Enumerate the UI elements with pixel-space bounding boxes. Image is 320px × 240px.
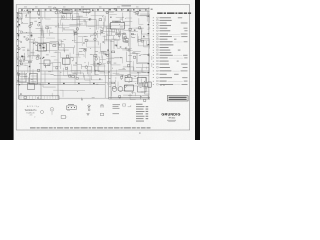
wire [31,42,38,51]
resistor R26 [46,27,49,29]
wire [101,27,111,29]
resistor R31 [63,16,65,18]
transistor T25 [129,9,132,12]
value label [87,39,89,42]
wire [71,15,73,20]
wire [132,28,142,32]
value label [140,86,142,89]
capacitor C9 [99,77,101,79]
wire [126,17,132,19]
transistor T2 [85,66,88,69]
resistor R16 [29,61,32,63]
wire [128,96,141,100]
wire [123,13,132,22]
U2 inner blobs [39,45,41,46]
wire [142,28,148,34]
wire [43,42,57,51]
wire [18,29,21,31]
component blob [42,57,43,60]
left edge component mark B [18,34,20,36]
resistor R20 [74,33,77,35]
wire [93,56,105,66]
wire [113,72,120,74]
wire [27,66,29,73]
wire [118,69,126,71]
wire [36,28,42,35]
wire [45,9,51,19]
wire [74,32,78,34]
component blob [143,36,144,38]
wire [130,79,137,82]
wire [143,83,150,87]
wire [76,54,84,57]
left black binding bar [0,0,14,140]
wire [87,41,99,45]
wire [73,45,75,48]
wire [30,17,37,19]
value label [123,67,125,70]
wire [109,14,116,16]
transistor T4 [89,18,91,20]
capacitor C11 [81,98,83,100]
value label [134,75,136,78]
wire [119,31,121,39]
multipin connector label [68,103,74,106]
value label [109,85,111,88]
filter box U3 [63,58,71,64]
bottom small print line [30,127,151,128]
value label [126,10,128,13]
wire [23,32,32,38]
value label [104,52,106,55]
wire [104,18,111,26]
right black binding bar [195,0,200,140]
transistor T10 [55,11,58,14]
value label [128,54,132,57]
wire [130,53,137,63]
wire [132,34,136,36]
junction [123,21,126,24]
value label [27,49,30,52]
wire [138,71,146,73]
value label [92,96,95,99]
wire [104,51,109,54]
wire [69,23,80,25]
wire main horizontal y71 [17,70,150,72]
small box connector [100,113,103,115]
component blob [105,54,106,55]
wire [28,48,40,55]
wire [106,11,114,13]
transistor T23 [53,7,56,10]
wire [124,91,133,94]
resistor R24 [85,39,87,42]
wire [110,91,112,96]
capacitor C17 [89,18,91,20]
value label [27,81,29,84]
component blob [136,72,139,73]
wire vertical x105 [104,75,106,98]
resistor R9 [128,74,130,77]
junction [27,34,30,37]
wire section vertical [76,9,78,75]
wire [144,42,150,46]
value label [95,65,97,68]
junction [106,33,109,36]
wire [123,35,129,39]
transistor T14 [83,49,85,51]
wire [142,63,149,72]
dial scale strip [19,96,59,100]
wire [137,53,150,63]
wire section vertical [18,9,20,99]
component blob [95,70,96,71]
component blob [97,63,98,65]
transistor T12 [59,10,61,12]
wire band y33 [20,33,105,35]
value label [23,49,25,52]
wire [98,66,104,71]
wire [21,18,28,23]
value label [125,40,128,43]
resistor R25 [124,37,127,38]
junction [130,35,133,38]
wire [148,15,149,23]
wire [100,29,102,35]
scan mottle clouds [14,1,195,139]
resistor R30 [99,19,102,21]
wire [142,31,150,40]
component blob [33,43,34,44]
wire [144,90,150,92]
wire horizontal y75.5 [55,75,149,77]
wire [115,74,123,76]
left edge component mark A [18,24,20,25]
subtitle line 2 [168,120,175,123]
title text 1 [169,97,187,98]
schematic area [17,5,152,101]
wire [17,53,29,63]
wire [43,82,56,87]
wire [140,54,149,61]
wire [65,47,74,54]
wire [70,15,80,19]
wire [58,40,62,47]
component blob [107,49,108,50]
junction [71,59,74,62]
wire [58,47,64,51]
wire [101,43,106,51]
value label [107,83,111,86]
wire [61,15,70,19]
wire [71,70,81,74]
wire section vertical [108,9,110,99]
wire [102,56,105,64]
component blob [24,36,26,39]
wire [147,35,150,37]
capacitor C4 [122,74,124,76]
junction [71,39,74,42]
wire [43,33,56,42]
resistor R38 [53,45,56,47]
resistor R19 [65,67,67,69]
value label [115,21,118,24]
wire [121,48,132,50]
wire [54,52,61,58]
value label [132,51,135,54]
wire [123,94,132,96]
value label [96,83,98,86]
wire section vertical [29,9,31,75]
wire [79,48,87,51]
left edge component mark E [20,93,22,96]
value label [95,50,98,53]
svg-text:2: 2 [34,117,35,119]
resistor R35 [141,40,144,42]
wire [100,51,110,53]
resistor R12 [139,27,141,29]
wire [131,93,136,96]
resistor R17 [74,31,76,32]
wire [24,98,35,100]
right boundary nubs [148,16,150,74]
wire [51,44,64,52]
wire [123,67,134,71]
transistor T24 [37,55,39,57]
aux symbol bracket [128,105,131,107]
value label [17,20,19,23]
resistor R10 [138,40,141,42]
junction [134,82,137,85]
value label [146,15,148,18]
junction [114,77,117,80]
junction [89,35,92,38]
wire [141,39,150,49]
wire [81,98,83,100]
wire [51,55,56,57]
transistor T1 [18,47,20,49]
wire [82,66,92,73]
wire [73,40,76,42]
wire [75,10,81,13]
wire [141,77,146,82]
transistor T22 [29,25,32,28]
jack box below [61,116,66,119]
value label [55,51,57,54]
transistor T15 [99,62,101,64]
wire [53,66,60,68]
wire [132,53,139,55]
wire [136,27,144,29]
capacitor C15 [140,95,142,97]
resistor R7 [136,12,139,14]
wire [136,67,149,72]
wire [64,59,66,67]
bottom mini parts list [136,103,143,106]
value label [133,11,136,14]
wire [54,59,58,61]
value label [50,73,53,76]
wire [87,72,89,77]
wire [143,54,149,56]
wire [75,33,82,43]
value label [108,77,110,80]
wire [129,30,138,32]
wire [33,49,39,56]
wire [148,54,149,58]
wire [72,20,85,25]
resistor R29 [28,12,31,13]
wire [130,94,136,100]
wire [84,21,88,23]
wire [32,69,34,72]
value label [40,27,42,30]
value label [120,26,123,29]
wire [141,79,147,83]
wire [41,73,50,75]
transistor T6 [94,33,97,36]
junction [41,43,44,46]
low zone components [48,83,95,84]
svg-text:A 3 3 / 3 p: A 3 3 / 3 p [27,105,40,108]
wire [103,36,105,44]
wire [29,77,41,83]
resistor R45 [143,99,145,101]
crown connector [101,104,104,106]
value label [35,49,38,52]
wire [18,9,28,15]
capacitor C12 [23,59,25,61]
component blob [43,57,45,58]
svg-text:GRUNDIG: GRUNDIG [161,112,180,116]
value label [90,34,94,37]
wire [118,82,126,91]
bottom note block 2 [113,112,120,115]
gap mark top [151,9,153,10]
resistor R18 [124,39,126,42]
junction [111,67,114,70]
wire [103,36,107,40]
wire [100,58,106,60]
wire [81,49,85,59]
wire [116,29,121,34]
wire [87,41,101,47]
resistor R11 [66,55,68,58]
wire [121,31,126,34]
wire [114,56,119,58]
wire [125,34,127,38]
wire [41,17,43,20]
coil box L3 [28,84,35,90]
wire [63,30,74,36]
value label [21,46,25,49]
value label [24,75,28,78]
wire [69,25,76,27]
top margin tiny labels [24,6,139,9]
wire [40,31,44,38]
value label [55,25,57,28]
wire [138,36,148,46]
resistor R6 [24,97,27,99]
resistor R44 [23,57,25,60]
wire [87,62,89,66]
value label [128,27,132,30]
component blob [134,30,136,31]
component blob [31,35,33,37]
wire [101,52,103,59]
wire [114,36,121,39]
wire [106,57,114,59]
wire [25,53,33,60]
transistor T8 [116,33,118,35]
value label [79,15,83,18]
relay box K1 [44,60,50,66]
oscillator box U2 [38,44,47,51]
junction [21,21,24,24]
wire [91,76,102,80]
wire low horizontal A [17,78,93,80]
wire [124,29,130,31]
parts list rows [153,17,188,85]
wire [147,41,150,45]
wire [95,69,99,74]
resistor R34 [113,87,116,89]
resistor R22 [20,60,22,61]
wire [63,38,66,40]
wire [90,64,104,73]
transistor T7 [125,75,128,78]
svg-text:ulm: ulm [30,115,33,117]
wire section vertical [148,8,150,100]
wire [126,52,131,62]
capacitor C19 [40,57,42,59]
wire [140,14,149,18]
wire band y25 [45,24,130,26]
wire [38,37,45,39]
box P2 [30,74,38,85]
wire [36,43,49,53]
component blob [29,66,31,67]
wire low horizontal B [17,82,109,84]
resistor R33 [123,33,125,34]
wire [110,41,114,43]
resistor R28 [94,54,97,56]
gap brace marks [151,56,154,60]
wire [137,57,148,64]
title block box [167,96,188,101]
aux symbol box [123,104,126,106]
IF can L1 [63,9,73,13]
resistor R8 [76,78,78,80]
wire [74,13,79,20]
value label [109,81,112,84]
wire [100,73,109,79]
small socket in cluster [41,111,44,114]
wire [142,95,148,99]
component blob [27,49,28,52]
resistor R42 [120,76,122,78]
resistor R3 [37,69,39,71]
capacitor C13 [25,14,27,16]
ground symbol [87,113,90,115]
capacitor C10 [83,42,85,44]
tuning capacitor C100 [18,14,23,20]
value label [90,53,93,56]
value label [120,18,123,21]
wire baseline y98 [59,97,109,99]
antenna dot [88,109,90,111]
wire section vertical [57,9,59,99]
